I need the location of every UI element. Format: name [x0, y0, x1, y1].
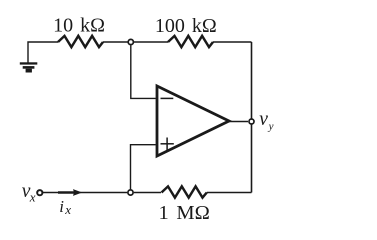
svg-text:v: v — [259, 109, 268, 130]
svg-text:1 MΩ: 1 MΩ — [159, 202, 210, 224]
svg-text:10 kΩ: 10 kΩ — [53, 15, 105, 37]
svg-text:i: i — [59, 197, 64, 216]
svg-text:x: x — [29, 190, 36, 205]
svg-text:x: x — [64, 202, 71, 217]
svg-text:y: y — [268, 120, 274, 132]
svg-text:100 kΩ: 100 kΩ — [155, 15, 217, 37]
